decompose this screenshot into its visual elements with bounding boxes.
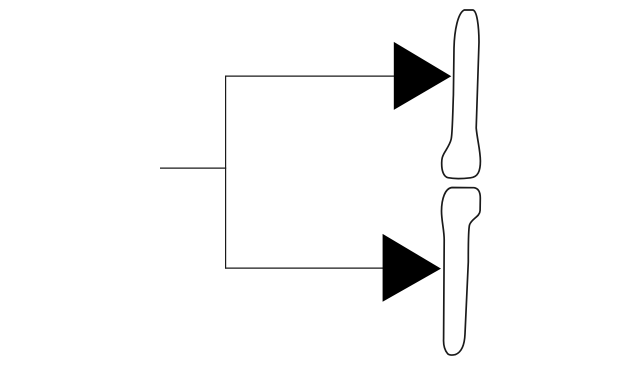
wire bottom branch [225,267,384,269]
wire vertical (branch line) [225,76,227,269]
wire top branch [225,75,395,77]
propeller blade bottom outline [442,188,481,356]
wire stub (input line) [160,167,226,169]
propeller blade top outline [442,10,481,179]
arrow top (filled triangle) [394,42,452,110]
arrow bottom (filled triangle) [383,234,441,302]
